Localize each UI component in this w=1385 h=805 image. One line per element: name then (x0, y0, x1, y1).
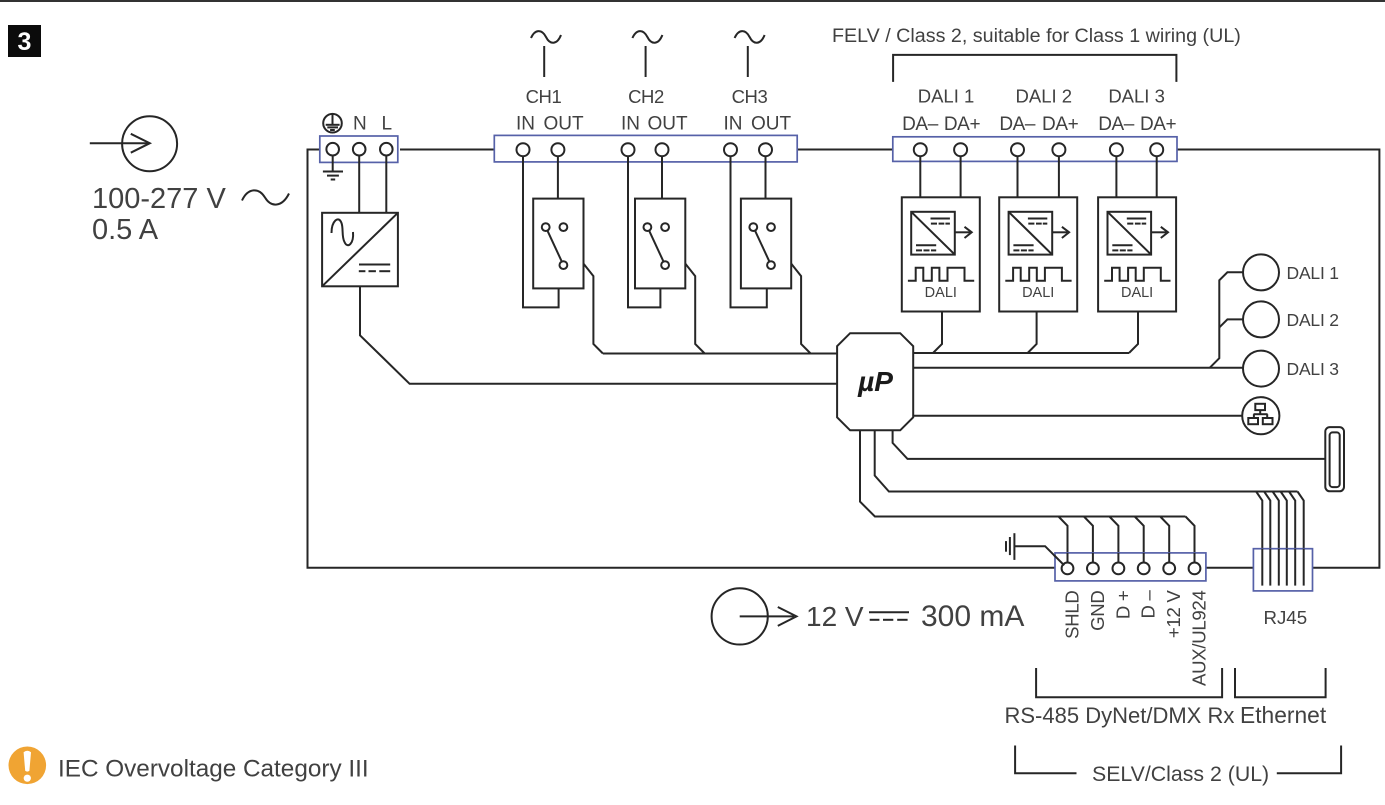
svg-text:RJ45: RJ45 (1263, 607, 1307, 628)
DALI 2 port circle (1243, 301, 1279, 337)
svg-text:GND: GND (1087, 591, 1108, 631)
label 300 mA (921, 600, 1024, 633)
svg-text:D +: D + (1112, 591, 1133, 620)
wire DALI driver U2 to bus (933, 312, 942, 354)
svg-text:0.5 A: 0.5 A (92, 214, 159, 246)
terminal AUX/UL924 (1189, 563, 1201, 575)
label L (382, 114, 393, 135)
wire DA+2 to driver (1058, 156, 1060, 197)
DALI driver U3 (999, 197, 1077, 311)
Ethernet bracket (1235, 668, 1326, 697)
RJ45 bundle wire 1 (1256, 492, 1262, 586)
svg-text:DA–: DA– (999, 114, 1036, 135)
svg-text:IEC Overvoltage Category III: IEC Overvoltage Category III (58, 756, 369, 783)
wire stubs into terminal block (1054, 553, 1195, 565)
wire CH1 IN under relay K1 (523, 156, 559, 307)
wire CH3 IN under relay K3 (731, 156, 767, 307)
svg-text:µP: µP (857, 366, 893, 397)
wire DA-3 to driver (1115, 156, 1117, 197)
wire microprocessor to service connector (893, 430, 1326, 459)
terminal CH3 OUT (759, 143, 772, 156)
label IEC Overvoltage Category III (58, 756, 369, 783)
wire to terminal D+ (1109, 517, 1118, 562)
label terminal GND (1087, 591, 1108, 631)
svg-text:DA–: DA– (902, 114, 939, 135)
svg-text:DALI 1: DALI 1 (1287, 263, 1339, 283)
SELV bracket (1015, 746, 1341, 774)
wire DALI driver U3 to bus (1028, 312, 1037, 354)
svg-text:3: 3 (18, 28, 32, 56)
power terminal block TB1 (320, 136, 398, 162)
wire to terminal AUX/UL924 (1186, 517, 1195, 562)
label DA- DA+ channel 1 (902, 114, 980, 135)
svg-text:DALI 1: DALI 1 (918, 86, 975, 107)
RS-485 terminal block TB4 (1055, 553, 1206, 581)
svg-text:N: N (353, 114, 367, 135)
terminal DA-2 (1011, 143, 1024, 156)
terminal N (353, 143, 366, 156)
wire DA-2 to driver (1017, 156, 1019, 197)
terminal +12V (1163, 563, 1175, 575)
label 12 V (806, 601, 864, 632)
svg-text:CH2: CH2 (628, 86, 664, 107)
terminal DA-3 (1110, 143, 1123, 156)
terminal CH2 OUT (656, 143, 669, 156)
wire chassis ground to SHLD (1014, 546, 1064, 565)
12 V auxiliary source symbol (712, 588, 797, 644)
wire CH2 OUT to relay K2 (661, 156, 663, 198)
terminal L (380, 143, 393, 156)
svg-text:DA–: DA– (1098, 114, 1135, 135)
RJ45 bundle wire 5 (1289, 492, 1295, 586)
svg-text:DA+: DA+ (1140, 114, 1177, 135)
label 0.5 A (92, 214, 159, 246)
figure number badge 3 (8, 25, 41, 57)
svg-text:IN: IN (621, 114, 640, 135)
label CH3 (732, 86, 768, 107)
label 100-277 V (92, 183, 226, 215)
terminal DA+1 (954, 143, 967, 156)
terminal CH2 IN (622, 143, 635, 156)
label CH2 IN OUT (621, 114, 688, 135)
protective earth symbol (323, 114, 342, 133)
wire DA+3 to driver (1156, 156, 1158, 197)
terminal DA+2 (1052, 143, 1065, 156)
svg-text:OUT: OUT (751, 114, 792, 135)
label DALI 3 port (1287, 359, 1339, 379)
DALI driver bus wire to microprocessor (913, 352, 1129, 354)
label terminal D- (1138, 590, 1159, 619)
wire DA-1 to driver (919, 156, 921, 197)
DALI 3 port circle (1243, 351, 1279, 387)
svg-text:D –: D – (1138, 590, 1159, 619)
label DA- DA+ channel 3 (1098, 114, 1176, 135)
label CH2 (628, 86, 664, 107)
svg-text:12 V: 12 V (806, 601, 864, 632)
channel terminal block TB2 (494, 135, 797, 162)
wire N to power supply (358, 156, 360, 213)
wire microprocessor to RJ45 bundle (875, 430, 1298, 491)
label CH3 IN OUT (724, 114, 792, 135)
svg-text:Ethernet: Ethernet (1240, 702, 1327, 728)
terminal GND (1087, 563, 1099, 575)
CH2 AC tilde (632, 31, 662, 43)
ground (323, 156, 343, 180)
label DALI 2 port (1287, 310, 1339, 330)
wire DALI driver U4 to bus (1129, 312, 1138, 354)
terminal CH1 OUT (551, 143, 564, 156)
CH3 supply stub wire (747, 46, 749, 77)
svg-text:SELV/Class 2 (UL): SELV/Class 2 (UL) (1092, 762, 1269, 786)
wire to terminal D- (1135, 517, 1144, 562)
DALI driver U4 (1098, 197, 1176, 311)
AC tilde symbol (242, 190, 289, 204)
chassis ground symbol (1006, 533, 1014, 560)
RJ45 jack (1253, 549, 1312, 591)
RS-485 bracket (1036, 668, 1222, 697)
RJ45 bundle wire 3 (1273, 492, 1279, 586)
FELV bracket (893, 55, 1176, 82)
power supply U1 (322, 213, 398, 286)
label SELV/Class 2 (UL) (1092, 762, 1269, 786)
svg-text:DALI 3: DALI 3 (1108, 86, 1165, 107)
wire DA+1 to driver (960, 156, 962, 197)
wire CH3 OUT to relay K3 (765, 156, 767, 198)
wire L to power supply (385, 156, 387, 213)
svg-text:CH3: CH3 (732, 86, 768, 107)
relay K1 (533, 199, 583, 289)
CH2 supply stub wire (645, 46, 647, 77)
enclosure outline (308, 150, 1380, 568)
terminal D+ (1113, 563, 1125, 575)
CH3 AC tilde (735, 31, 765, 43)
terminal CH1 IN (517, 143, 530, 156)
terminal PE (326, 143, 339, 156)
RJ45 bundle wire 2 (1264, 492, 1270, 586)
CH1 AC tilde (531, 31, 561, 43)
wire to terminal +12V (1160, 517, 1169, 562)
CH1 supply stub wire (543, 46, 545, 77)
label terminal AUX/UL924 (1189, 591, 1210, 687)
relay K2 (635, 199, 685, 289)
RJ45 bundle wire 4 (1281, 492, 1287, 586)
label DALI 1 port (1287, 263, 1339, 283)
wire to terminal GND (1084, 517, 1093, 562)
wire relay K3 to bus (791, 264, 810, 354)
svg-text:DALI 3: DALI 3 (1287, 359, 1339, 379)
label FELV / Class 2, suitable for Class 1 wiring (UL) (832, 25, 1241, 47)
label DALI 3 (top) (1108, 86, 1165, 107)
label CH1 IN OUT (516, 114, 584, 135)
svg-text:OUT: OUT (647, 114, 688, 135)
wire to terminal SHLD (1059, 517, 1068, 562)
DALI driver U2 (902, 197, 980, 311)
RJ45 bundle wire 6 (1298, 492, 1304, 586)
label DALI 2 (top) (1016, 86, 1073, 107)
svg-text:DALI 2: DALI 2 (1016, 86, 1073, 107)
RJ45 bundle wires inside jack (1262, 549, 1303, 586)
wire power supply to microprocessor (360, 286, 837, 384)
terminal DA-1 (914, 143, 927, 156)
svg-text:L: L (382, 114, 393, 135)
DALI port tree wire (913, 272, 1243, 368)
label RS-485 DyNet/DMX Rx (1005, 703, 1235, 728)
label terminal SHLD (1062, 591, 1083, 639)
svg-text:OUT: OUT (543, 114, 584, 135)
svg-text:100-277 V: 100-277 V (92, 183, 226, 215)
label DA- DA+ channel 2 (999, 114, 1078, 135)
svg-text:RS-485 DyNet/DMX Rx: RS-485 DyNet/DMX Rx (1005, 703, 1235, 728)
svg-text:DALI: DALI (1121, 285, 1153, 301)
wire relay K1 to bus (584, 264, 603, 354)
service connector (USB) (1325, 427, 1344, 491)
microprocessor U5 (837, 333, 913, 430)
wire relay K2 to bus (685, 264, 704, 354)
svg-text:FELV / Class 2, suitable for C: FELV / Class 2, suitable for Class 1 wir… (832, 25, 1241, 47)
top border bar (0, 0, 1385, 2)
terminal CH3 IN (724, 143, 737, 156)
ethernet port circle with network icon (1242, 397, 1279, 434)
label CH1 (526, 86, 562, 107)
wire CH1 OUT to relay K1 (557, 156, 559, 198)
svg-text:DALI 2: DALI 2 (1287, 310, 1339, 330)
DC symbol (869, 612, 909, 620)
DALI terminal block TB3 (893, 137, 1177, 162)
relay K3 (741, 199, 791, 289)
wire CH2 IN under relay K2 (628, 156, 660, 307)
svg-text:+12 V: +12 V (1163, 590, 1184, 639)
svg-text:CH1: CH1 (526, 86, 562, 107)
svg-text:SHLD: SHLD (1062, 591, 1083, 639)
label terminal D+ (1112, 591, 1133, 620)
label RJ45 (1263, 607, 1307, 628)
svg-text:IN: IN (516, 114, 535, 135)
svg-text:AUX/UL924: AUX/UL924 (1189, 591, 1210, 687)
wire microprocessor to ethernet port (913, 415, 1242, 417)
terminal D- (1138, 563, 1150, 575)
label Ethernet (1240, 702, 1327, 728)
terminal DA+3 (1150, 143, 1163, 156)
DALI 1 port circle (1243, 254, 1279, 290)
terminal SHLD (1062, 563, 1074, 575)
mains input symbol (90, 116, 177, 171)
svg-text:300 mA: 300 mA (921, 600, 1024, 633)
svg-text:DALI: DALI (925, 285, 957, 301)
warning icon (9, 747, 47, 785)
svg-text:DALI: DALI (1022, 285, 1054, 301)
svg-text:IN: IN (724, 114, 743, 135)
wire microprocessor to RS-485 terminal bus (860, 430, 1186, 516)
label DALI 1 (top) (918, 86, 975, 107)
relay bus wire to microprocessor (603, 353, 837, 355)
svg-text:DA+: DA+ (944, 114, 981, 135)
label N (353, 114, 367, 135)
svg-text:DA+: DA+ (1042, 114, 1079, 135)
label terminal +12V (1163, 590, 1184, 639)
